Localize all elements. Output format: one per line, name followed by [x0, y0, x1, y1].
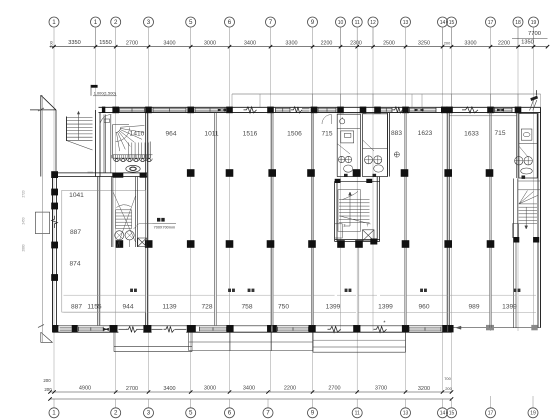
svg-text:200: 200: [48, 40, 53, 47]
label leader to stair: [134, 224, 153, 230]
svg-text:3400: 3400: [243, 386, 255, 392]
fan room west wall line: [110, 115, 112, 173]
svg-text:5: 5: [189, 410, 193, 417]
column on top wall at x=148.5: [145, 107, 152, 114]
window on bottom wall between axis 7 and 9: [278, 327, 309, 329]
column on bottom wall at x=274.6: [272, 325, 277, 332]
bottom axis bubble 19: [528, 408, 538, 418]
wall below right stair left face: [513, 243, 515, 328]
mid stair cut diagonal: [340, 216, 371, 224]
top axis bubble 15 at x=451.5: [447, 17, 457, 27]
break symbol on top wall between axis 12 and 13: [393, 107, 403, 113]
break symbol on west wall (vertical): [52, 216, 58, 228]
bottom axis bubble 14: [438, 408, 448, 418]
window stub on top wall before axis 9: [302, 108, 310, 110]
upper floor edge line: [232, 93, 541, 95]
door threshold marks top wall near axis 17: [497, 108, 504, 111]
mid bathroom A wc circle right: [345, 156, 351, 162]
column on west wall at y=277.5: [51, 274, 58, 281]
column on bottom wall at x=356.8: [353, 325, 360, 332]
svg-text:750: 750: [278, 304, 289, 311]
left shaft tread box sides: [116, 210, 132, 229]
grid line axis 2: [115, 47, 117, 392]
west protruding bay outline: [35, 212, 49, 234]
upper floor edge ticks: [232, 94, 541, 107]
window on bottom wall between axis 1 and 2b: [79, 327, 104, 329]
grid line axis 3: [148, 47, 150, 392]
shaft east wall upper right face: [379, 177, 381, 242]
svg-text:7700: 7700: [528, 31, 541, 37]
bottom dimension ticks: [48, 390, 453, 400]
bottom axis bubble 13: [401, 408, 411, 418]
svg-text:9: 9: [311, 19, 315, 26]
interior column row B x=448.2: [444, 240, 452, 248]
column on bottom wall at x=74.7: [72, 325, 78, 332]
window on bottom wall between axis 5 and 6: [200, 327, 227, 329]
stair block north wall stub: [30, 109, 56, 111]
mid bathroom B door blob: [373, 174, 377, 177]
partition wall axis 13 left face: [404, 113, 406, 326]
bottom overall dimension line: [50, 398, 452, 400]
bottom axis leader 1: [53, 399, 55, 408]
bottom axis leader 14: [442, 399, 444, 408]
bottom dimension line: [50, 391, 452, 393]
right roof leader diagonal 2: [533, 100, 537, 111]
left vertical dim tick bottom: [38, 325, 44, 328]
right leader tick: [535, 90, 537, 95]
wash trough counter line: [113, 154, 153, 156]
partition wall x=448 right face: [448, 113, 450, 326]
mid bathroom A outline: [337, 114, 360, 176]
interior column row B x=148.7: [145, 240, 153, 248]
left shaft diagonal 2: [117, 196, 136, 247]
grey column beyond wall at x=534: [531, 325, 537, 330]
right stair landing line 1: [518, 180, 541, 182]
column on bottom wall at x=312.1: [309, 325, 316, 332]
bottom axis bubble 5: [186, 408, 196, 418]
top axis bubble 17 at x=490.5: [486, 17, 496, 27]
elevator box with X: [363, 230, 375, 241]
svg-text:3400: 3400: [244, 41, 256, 47]
interior column row A x=404.5: [401, 169, 409, 177]
section arrow line bottom right: [456, 326, 483, 329]
bottom axis bubble 1: [49, 408, 59, 418]
left vertical dim tick top: [38, 108, 44, 111]
svg-text:2450: 2450: [22, 217, 26, 224]
window on top wall between axis 5 and 6: [195, 108, 225, 110]
door leaf west corridor: [99, 115, 101, 126]
svg-text:1399: 1399: [502, 304, 517, 311]
outer stair tiny landing text: [88, 172, 94, 174]
svg-text:2300: 2300: [350, 40, 362, 46]
svg-text:1399: 1399: [378, 304, 393, 311]
svg-text:887: 887: [71, 304, 82, 311]
mid bathroom A door diagonal: [337, 144, 350, 154]
mid bathroom A door blob: [344, 174, 348, 177]
bottom exterior wall inner face: [53, 325, 452, 327]
stair block corner diagonal: [41, 95, 56, 110]
svg-text:2700: 2700: [126, 41, 138, 47]
bottom axis bubble 7: [263, 408, 273, 418]
mid stair treads: [339, 200, 370, 223]
mid bathroom A top fixture circle: [340, 117, 345, 124]
interior column row B x=270.5: [267, 240, 275, 248]
partition wall axis 3 left face: [145, 113, 147, 326]
label underline 700X700mm: [153, 223, 177, 225]
svg-text:3: 3: [147, 410, 151, 417]
right bathroom door diagonal: [519, 146, 528, 157]
right exterior wall inner face: [537, 113, 539, 328]
top axis bubble 13 at x=405.5: [401, 17, 411, 27]
corridor small box: [104, 119, 109, 122]
column on top wall at x=405.5: [402, 107, 409, 114]
tiny room label blob 4: [420, 289, 427, 292]
svg-text:11: 11: [355, 20, 360, 26]
right stair bottom block left: [513, 237, 519, 243]
window sill line axis 15 to 18: [449, 115, 517, 117]
svg-text:2: 2: [114, 410, 118, 417]
svg-text:3350: 3350: [68, 40, 80, 46]
top axis bubble 6 at x=229.5: [225, 17, 235, 27]
right bathroom sink bowl: [523, 133, 530, 137]
svg-text:2700: 2700: [126, 386, 138, 392]
grid line axis 10: [340, 27, 342, 331]
bottom axis bubble 6: [225, 408, 235, 418]
svg-text:7: 7: [367, 224, 369, 228]
column on top wall at x=340.5: [337, 107, 344, 114]
partition wall x=215 right face: [215, 113, 217, 326]
interior column row A x=229.5: [226, 169, 234, 177]
bottom axis leader 13: [405, 399, 407, 408]
right roof leader diagonal 1: [530, 100, 534, 111]
bottom axis leader 19: [532, 396, 534, 408]
partition wall axis 17 left face: [489, 113, 491, 328]
door threshold marks bottom wall x=103-109: [103, 328, 109, 331]
svg-text:17: 17: [488, 411, 494, 417]
mid stair handrail arc: [343, 192, 359, 200]
top axis bubble 10 at x=340.5: [336, 17, 346, 27]
bottom exterior wall outer face seg2: [143, 331, 151, 333]
mid bathroom A wc circle left: [338, 156, 344, 162]
svg-text:700X700mm: 700X700mm: [154, 225, 176, 229]
wash trough scallops: [114, 159, 153, 162]
interior column row B x=341: [337, 240, 345, 248]
level text underline: [93, 95, 117, 97]
svg-text:1623: 1623: [418, 130, 433, 137]
svg-text:15: 15: [449, 411, 455, 417]
mid bathroom B oval: [374, 165, 384, 172]
right bathroom wc circle left: [515, 157, 523, 165]
svg-text:1516: 1516: [243, 130, 258, 137]
interior column row A x=272.2: [268, 169, 276, 177]
pipe circle left cross: [116, 232, 122, 238]
interior column row A x=448.2: [444, 169, 452, 177]
svg-text:12: 12: [370, 20, 376, 26]
column on top wall at x=444.3: [441, 107, 448, 114]
interior column row A x=489.5: [486, 169, 494, 177]
wash trough comb hatching: [112, 155, 151, 158]
partition wall axis 9 left face: [311, 113, 313, 326]
interior column row B x=405.5: [402, 240, 410, 248]
grid line axis 1: [53, 47, 55, 392]
west jog wall at y=173: [53, 172, 148, 174]
column on top wall at x=270.5: [267, 107, 274, 114]
mid bathroom B shelf line: [363, 148, 388, 150]
outer stair left stringer: [66, 117, 68, 142]
door swing arc west corridor: [100, 115, 111, 126]
column on west wall at y=245: [51, 242, 58, 249]
mid bathroom A shelf line: [337, 127, 360, 129]
bottom axis bubble 2: [111, 408, 121, 418]
left shaft east wall: [136, 177, 138, 248]
single wall line axis 2 to 3: [118, 328, 126, 330]
window on top wall between axis 2 and 3: [120, 108, 145, 110]
svg-text:19: 19: [531, 20, 537, 26]
svg-text:1155: 1155: [87, 304, 102, 311]
shaft bottom wall block extra: [370, 239, 377, 245]
svg-text:2700: 2700: [328, 386, 340, 392]
partition wall axis 12 right face: [388, 113, 390, 177]
svg-text:13: 13: [403, 411, 409, 417]
outer stair treads: [67, 118, 93, 141]
grid line axis 12: [372, 27, 374, 331]
interior column row B x=119.4: [116, 240, 124, 248]
outer stair cut diagonal: [67, 141, 93, 151]
partition wall x=518 left face: [516, 113, 518, 178]
bottom axis leader 7: [267, 399, 269, 408]
column on jog wall x=143: [140, 173, 147, 178]
mid stair center line with arrows: [344, 192, 351, 226]
interior column row B x=229.5: [226, 240, 234, 248]
break symbol on bottom wall at x=131: [126, 326, 137, 332]
svg-text:1506: 1506: [287, 130, 302, 137]
svg-text:2880: 2880: [22, 244, 26, 251]
right stair treads: [519, 204, 537, 224]
svg-text:728: 728: [201, 304, 212, 311]
mid bathroom A bathtub inner: [345, 133, 351, 137]
right stair direction line with arrow: [525, 208, 528, 230]
window on bottom wall between axis 13 and 14: [409, 327, 441, 329]
break symbol on bottom wall at x=169: [164, 326, 175, 332]
svg-text:3400: 3400: [163, 41, 175, 47]
bottom wall thin continuation to right wall: [452, 327, 541, 329]
column on top wall at x=363: [360, 107, 367, 114]
column on bottom wall at x=269.3: [267, 325, 272, 332]
right leader flag blob: [530, 96, 538, 101]
top axis bubble 2 at x=115.7: [111, 17, 121, 27]
bottom axis leader 5: [190, 399, 192, 408]
mid stair shaft top wall: [335, 180, 380, 182]
west wall lower outer face: [52, 173, 54, 332]
svg-text:3700: 3700: [375, 386, 387, 392]
door leaf mid unit: [331, 115, 333, 125]
column on bottom wall at x=405.5: [402, 325, 409, 332]
top axis bubble 1 at x=95.5: [91, 17, 101, 27]
west wall upper outer face: [95, 110, 97, 177]
svg-text:1350: 1350: [521, 40, 533, 46]
bottom axis bubble 9: [308, 408, 318, 418]
svg-text:1633: 1633: [464, 130, 479, 137]
pipe circle right cross: [126, 232, 132, 238]
mid stair inner box: [338, 190, 361, 232]
svg-text:10: 10: [338, 20, 344, 26]
left vertical dimension line: [42, 95, 44, 342]
grid line axis 13: [405, 47, 407, 392]
right stair west wall: [514, 179, 518, 238]
svg-text:200: 200: [444, 40, 451, 45]
level flag symbol: [91, 85, 98, 88]
svg-text:2200: 2200: [284, 386, 296, 392]
top dimension ticks: [52, 45, 549, 48]
mid bathroom B wc circle left: [365, 156, 373, 164]
bottom axis bubble 11: [352, 408, 362, 418]
mid bathroom B wc circle right: [374, 156, 382, 164]
svg-text:989: 989: [468, 304, 479, 311]
southwest corner diagonal step: [41, 332, 53, 342]
interior column row B x=490.5: [487, 240, 495, 248]
svg-text:1550: 1550: [99, 40, 111, 46]
left shaft diagonal 1: [113, 192, 136, 243]
interior column row A x=190.7: [187, 169, 195, 177]
window on top wall between axis 17 and 18: [495, 108, 513, 110]
grid line axis 1/1: [95, 27, 97, 110]
column on bottom wall at x=450.8: [448, 325, 454, 332]
partition wall axis 9 right face: [312, 113, 314, 326]
column on bottom wall at x=113.5: [110, 325, 118, 332]
grid line axis 14: [442, 27, 444, 392]
squat wc oval: [126, 165, 140, 172]
break symbol on bottom wall at x=334: [328, 326, 341, 332]
svg-text:2720: 2720: [22, 190, 26, 197]
svg-text:18: 18: [515, 20, 521, 26]
svg-text:715: 715: [494, 130, 505, 137]
single wall line axis 2 to 3 b: [137, 328, 144, 330]
top exterior wall inner face: [99, 112, 541, 114]
window on top wall between axis 13 and 14: [410, 108, 437, 110]
svg-text:19: 19: [530, 411, 536, 417]
svg-text:1: 1: [52, 410, 56, 417]
right bathroom door blob: [522, 176, 526, 179]
top axis bubble 3 at x=148.5: [144, 17, 154, 27]
right stair landing line 2: [518, 189, 541, 191]
bottom axis leader 3: [148, 399, 150, 408]
column on jog wall x=117.5: [112, 173, 123, 178]
svg-text:944: 944: [122, 304, 133, 311]
outer stair direction line with arrow: [77, 111, 80, 140]
top axis bubble 11 at x=357.2: [352, 17, 362, 27]
grid line axis 17: [490, 47, 492, 331]
west jog wall at y=176.5: [53, 176, 148, 178]
door arc into mid unit: [322, 115, 332, 125]
svg-text:9: 9: [311, 410, 315, 417]
porch middle outline: [189, 332, 313, 350]
column at west stair corner: [51, 171, 58, 178]
right stair lower landing box: [513, 224, 519, 238]
svg-text:3300: 3300: [464, 41, 476, 47]
mid bathroom A oval: [344, 165, 353, 172]
break symbol on top wall between axis 15 and 17: [462, 107, 478, 113]
partition wall below mid stair: [358, 242, 360, 326]
svg-text:11: 11: [355, 411, 360, 417]
interior wall x=98.5 lower part: [97, 177, 99, 326]
window on top wall between axis 3 and 5: [153, 108, 186, 110]
grey column beyond wall at x=490: [486, 325, 494, 330]
interior column row B x=312: [308, 240, 316, 248]
column on west wall at y=206: [51, 203, 58, 210]
pipe circle stems: [119, 240, 129, 247]
bottom axis leader 15: [451, 399, 453, 408]
top axis bubble 5 at x=190.7: [186, 17, 196, 27]
svg-text:200: 200: [43, 378, 51, 383]
svg-text:700: 700: [444, 376, 451, 381]
tiny room label blob 1: [130, 289, 137, 292]
svg-text:1: 1: [52, 19, 56, 26]
interior column row B x=359: [355, 240, 363, 248]
single wall line axis 3 to 5: [152, 328, 163, 330]
top axis bubble 14 at x=442.5: [438, 17, 448, 27]
bottom axis leader 17: [490, 396, 492, 408]
top exterior wall outer face: [99, 106, 541, 108]
bottom axis leader 6: [229, 399, 231, 408]
window on top wall between axis 9 and 10: [318, 108, 336, 110]
shaft top wall block right: [366, 179, 372, 183]
svg-text:13: 13: [403, 20, 409, 26]
column on top wall at x=518: [515, 107, 522, 114]
label band bottom line: [64, 311, 537, 313]
west wall upper inner face: [99, 113, 101, 177]
column on top wall at x=490.5: [487, 107, 494, 114]
right stair winder diagonals: [519, 191, 538, 204]
left shaft west wall: [112, 177, 113, 248]
partition wall axis 17 right face: [490, 113, 492, 328]
stair block inner wall: [55, 110, 57, 173]
interior column row A x=311: [307, 169, 315, 177]
bottom axis bubble 15: [447, 408, 457, 418]
wall below right stair right face: [515, 243, 517, 328]
right bathroom oval: [521, 168, 533, 174]
pipe circle left: [115, 231, 124, 240]
fan stair radial treads: [116, 126, 145, 152]
svg-text:17: 17: [488, 20, 494, 26]
mid stair shaft west wall: [335, 181, 337, 241]
column on top wall at x=229.5: [226, 107, 233, 114]
svg-text:960: 960: [418, 304, 429, 311]
top axis bubble 19 at x=533.5: [529, 17, 539, 27]
svg-text:2: 2: [344, 224, 346, 228]
top axis bubble 9 at x=312.5: [308, 17, 318, 27]
svg-text:15: 15: [449, 20, 455, 26]
fan stair bottom edge: [113, 157, 151, 159]
right bathroom mid shelf line: [519, 143, 537, 145]
svg-text:3000: 3000: [204, 41, 216, 47]
partition wall axis 7 left face: [270, 113, 272, 326]
window on top wall between axis 12 and 13: [381, 108, 393, 110]
column on top wall at x=314: [311, 107, 318, 114]
right stair bottom block right: [533, 237, 539, 243]
duct box with X near partition: [138, 238, 147, 247]
svg-text:1.000(1.500): 1.000(1.500): [94, 91, 117, 96]
svg-text:2200: 2200: [498, 41, 510, 47]
grid line axis 11: [356, 27, 358, 392]
svg-text:7: 7: [269, 19, 273, 26]
svg-text:1410: 1410: [130, 130, 145, 137]
column on bottom wall at x=147.4: [143, 325, 151, 332]
top dimension line: [50, 46, 548, 48]
left shaft handrail arc: [116, 205, 130, 208]
balcony east outline: [313, 332, 406, 352]
mid bathroom B door diagonal: [363, 140, 374, 151]
svg-text:3250: 3250: [418, 41, 430, 47]
